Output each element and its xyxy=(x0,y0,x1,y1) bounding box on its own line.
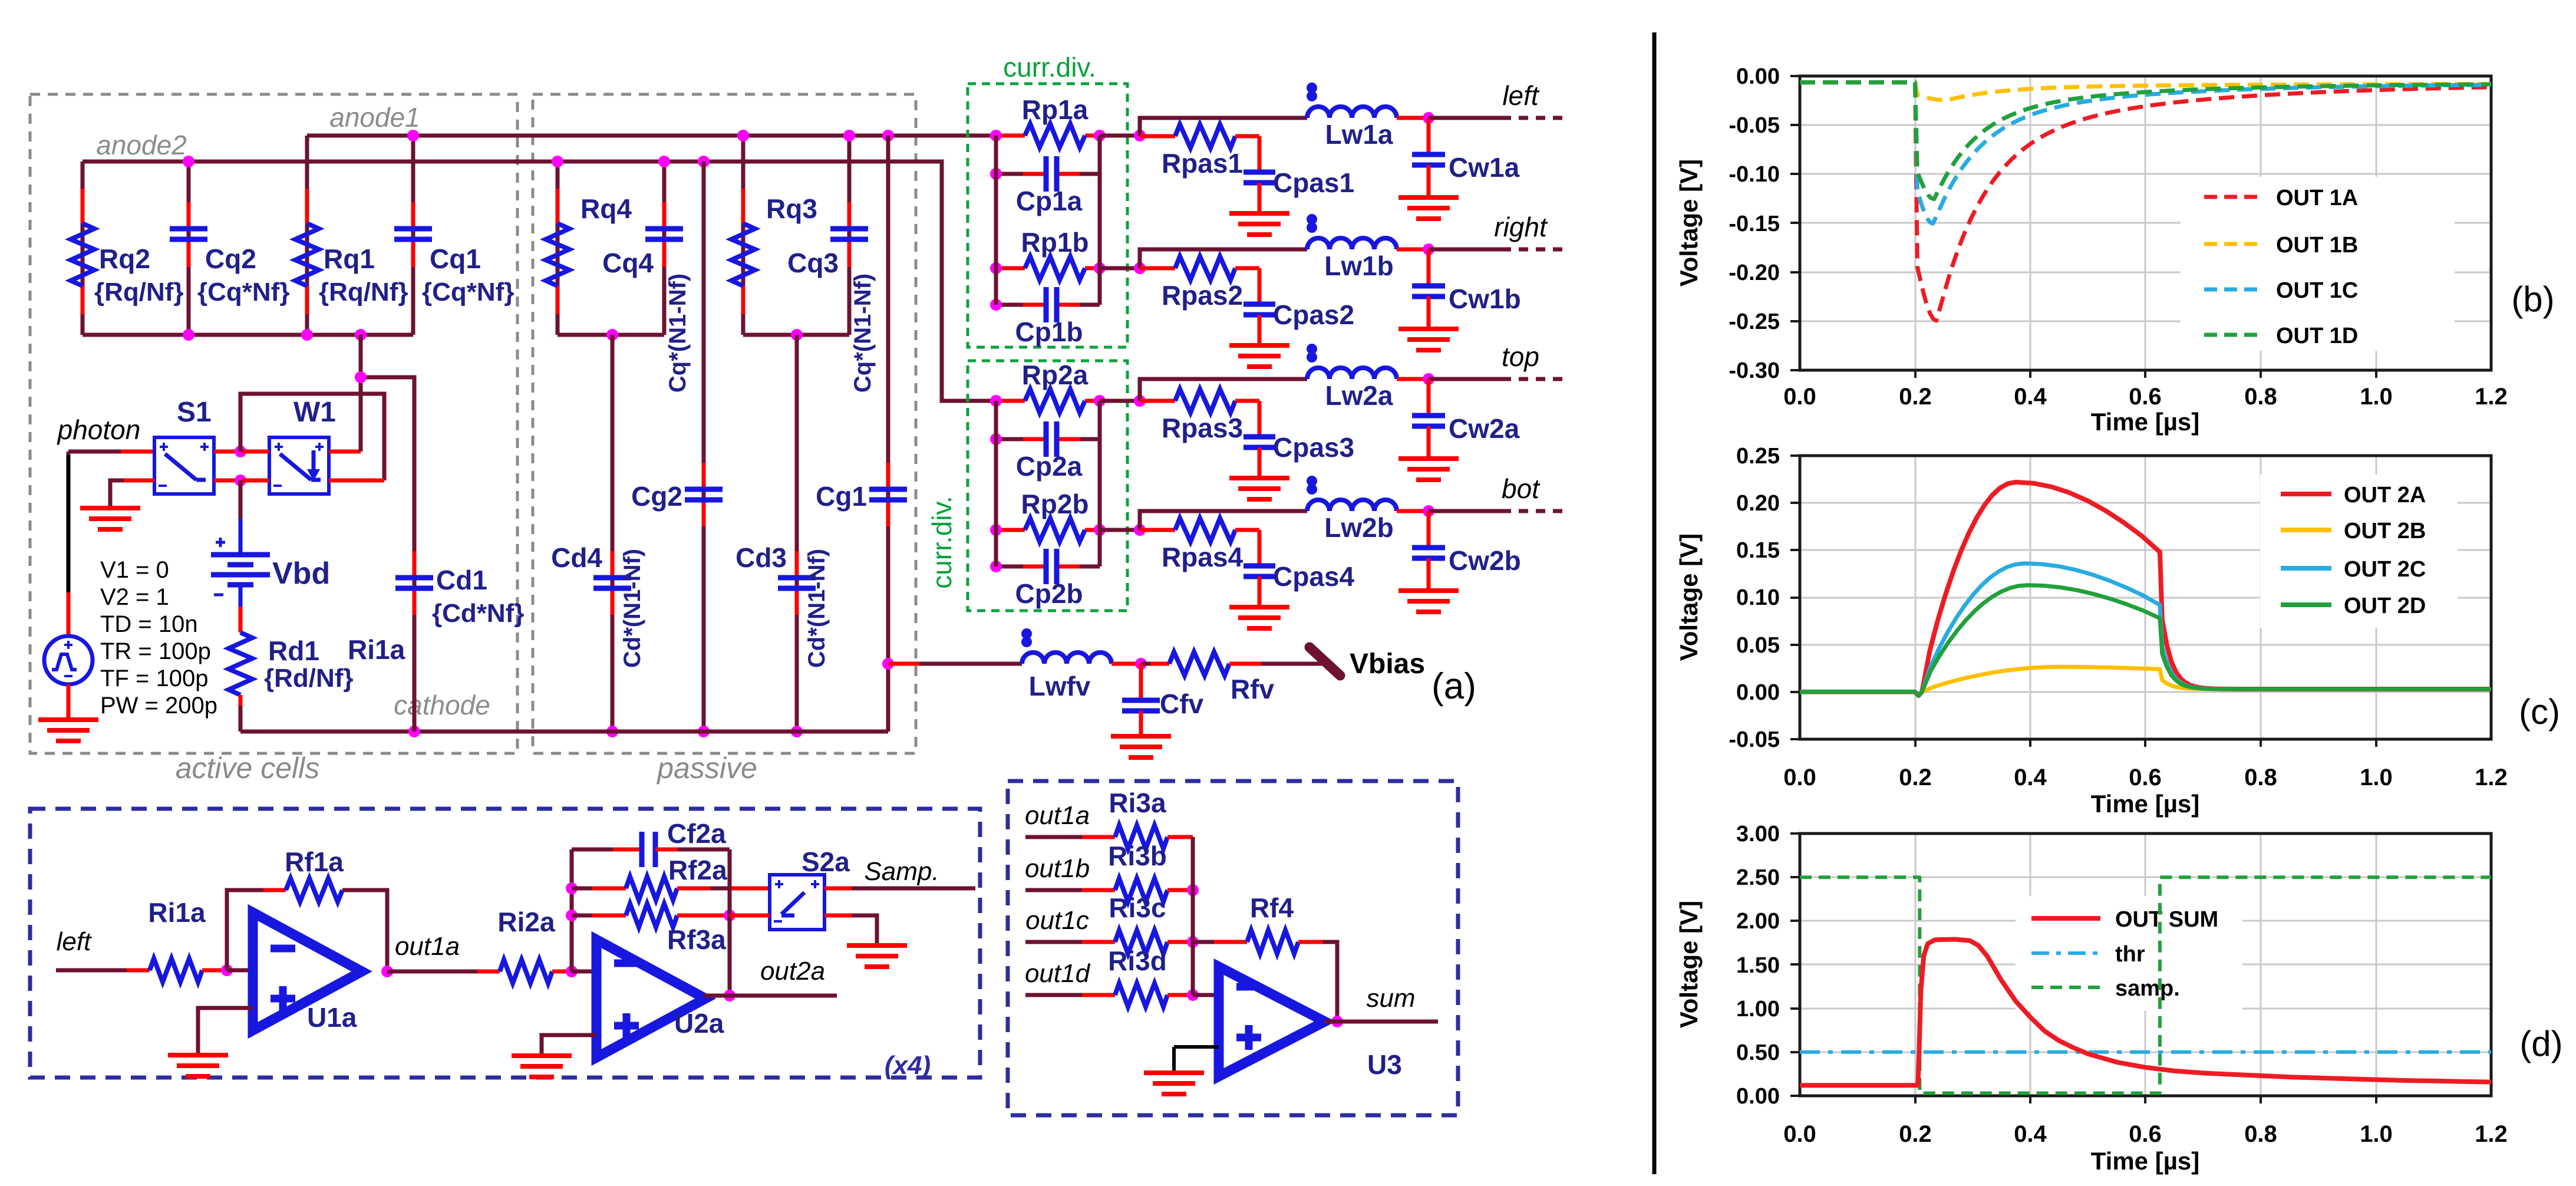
svg-text:Cw1b: Cw1b xyxy=(1449,284,1521,314)
svg-text:3.00: 3.00 xyxy=(1736,822,1780,846)
svg-text:-0.05: -0.05 xyxy=(1729,113,1780,138)
svg-text:Cw2a: Cw2a xyxy=(1449,413,1520,444)
svg-text:0.2: 0.2 xyxy=(1899,1121,1932,1147)
svg-text:0.10: 0.10 xyxy=(1736,585,1780,610)
svg-text:1.50: 1.50 xyxy=(1736,953,1780,978)
svg-text:Ri3b: Ri3b xyxy=(1108,841,1167,871)
svg-text:Rq3: Rq3 xyxy=(766,193,817,224)
svg-text:Rq1: Rq1 xyxy=(324,243,375,274)
svg-text:Cq*(N1-Nf): Cq*(N1-Nf) xyxy=(850,274,876,393)
svg-text:0.2: 0.2 xyxy=(1899,765,1932,790)
svg-text:out1b: out1b xyxy=(1025,854,1090,883)
svg-text:(b): (b) xyxy=(2511,279,2554,319)
svg-text:Cp1a: Cp1a xyxy=(1016,186,1083,216)
svg-text:Rp2b: Rp2b xyxy=(1021,489,1089,519)
svg-text:0.2: 0.2 xyxy=(1899,384,1932,410)
svg-text:Lw1b: Lw1b xyxy=(1324,251,1394,281)
svg-text:W1: W1 xyxy=(293,397,336,428)
svg-text:Cd*(N1-Nf): Cd*(N1-Nf) xyxy=(804,549,830,668)
svg-text:-0.25: -0.25 xyxy=(1729,309,1780,334)
svg-text:Cg1: Cg1 xyxy=(816,481,867,512)
svg-text:Cd*(N1-Nf): Cd*(N1-Nf) xyxy=(619,549,645,668)
svg-text:Cw1a: Cw1a xyxy=(1449,152,1520,183)
svg-text:curr.div.: curr.div. xyxy=(926,496,957,589)
svg-text:photon: photon xyxy=(57,414,141,445)
svg-text:out1a: out1a xyxy=(395,932,460,961)
svg-text:Cd3: Cd3 xyxy=(735,542,787,573)
svg-text:2.50: 2.50 xyxy=(1736,865,1780,890)
svg-text:Time [µs]: Time [µs] xyxy=(2091,408,2199,436)
svg-text:Time [µs]: Time [µs] xyxy=(2091,790,2199,818)
svg-text:Rd1: Rd1 xyxy=(268,635,319,666)
svg-text:0.8: 0.8 xyxy=(2244,765,2277,790)
svg-text:0.0: 0.0 xyxy=(1783,765,1816,790)
svg-text:Rpas2: Rpas2 xyxy=(1162,280,1243,311)
svg-text:-0.15: -0.15 xyxy=(1729,212,1780,236)
svg-text:1.2: 1.2 xyxy=(2475,384,2508,410)
svg-text:Cpas1: Cpas1 xyxy=(1273,167,1354,198)
svg-text:S1: S1 xyxy=(177,397,212,428)
svg-text:Ri1a: Ri1a xyxy=(148,897,206,928)
svg-text:Lwfv: Lwfv xyxy=(1029,671,1091,701)
svg-text:{Cq*Nf}: {Cq*Nf} xyxy=(422,278,514,307)
svg-text:Voltage [V]: Voltage [V] xyxy=(1675,159,1703,286)
svg-text:1.0: 1.0 xyxy=(2360,1121,2393,1147)
svg-text:Cd4: Cd4 xyxy=(551,542,602,573)
svg-text:Lw1a: Lw1a xyxy=(1325,119,1393,150)
svg-text:Cf2a: Cf2a xyxy=(667,818,726,849)
svg-text:cathode: cathode xyxy=(394,690,490,720)
svg-text:Rfv: Rfv xyxy=(1231,674,1275,704)
svg-text:bot: bot xyxy=(1502,473,1541,504)
svg-text:{Cq*Nf}: {Cq*Nf} xyxy=(197,278,289,307)
svg-text:Rq4: Rq4 xyxy=(580,193,632,224)
svg-text:0.8: 0.8 xyxy=(2244,1121,2277,1147)
svg-text:Samp.: Samp. xyxy=(864,857,939,886)
svg-text:0.20: 0.20 xyxy=(1736,491,1780,516)
svg-text:OUT 1D: OUT 1D xyxy=(2276,324,2358,348)
svg-text:Cd1: Cd1 xyxy=(436,565,487,595)
svg-text:top: top xyxy=(1502,341,1539,372)
svg-text:Rq2: Rq2 xyxy=(99,243,150,274)
svg-text:out2a: out2a xyxy=(760,957,825,986)
svg-text:curr.div.: curr.div. xyxy=(1003,52,1096,83)
svg-text:Cp2a: Cp2a xyxy=(1016,451,1083,482)
svg-text:anode2: anode2 xyxy=(96,130,187,160)
svg-text:passive: passive xyxy=(656,752,757,785)
svg-text:Rp1a: Rp1a xyxy=(1022,94,1089,125)
svg-text:samp.: samp. xyxy=(2115,976,2180,1001)
svg-text:0.00: 0.00 xyxy=(1736,680,1780,705)
svg-text:Cq1: Cq1 xyxy=(430,243,481,274)
svg-text:0.8: 0.8 xyxy=(2244,384,2277,410)
svg-text:right: right xyxy=(1494,212,1548,242)
svg-text:0.15: 0.15 xyxy=(1736,538,1780,563)
svg-text:OUT SUM: OUT SUM xyxy=(2115,907,2218,932)
svg-text:OUT 2B: OUT 2B xyxy=(2344,519,2426,543)
svg-text:0.6: 0.6 xyxy=(2129,765,2162,790)
svg-text:0.25: 0.25 xyxy=(1736,444,1780,469)
svg-text:1.2: 1.2 xyxy=(2475,765,2508,790)
svg-text:Vbd: Vbd xyxy=(272,556,330,591)
svg-text:Vbias: Vbias xyxy=(1350,648,1425,680)
svg-text:OUT 2A: OUT 2A xyxy=(2344,483,2426,508)
svg-text:Ri3d: Ri3d xyxy=(1108,945,1167,976)
svg-text:0.4: 0.4 xyxy=(2014,1121,2047,1147)
svg-text:out1a: out1a xyxy=(1025,801,1090,830)
svg-text:Cq4: Cq4 xyxy=(602,248,654,278)
svg-text:Ri3a: Ri3a xyxy=(1109,788,1166,818)
svg-text:0.05: 0.05 xyxy=(1736,633,1780,658)
svg-text:out1c: out1c xyxy=(1025,906,1089,935)
svg-text:0.00: 0.00 xyxy=(1736,1084,1780,1109)
svg-text:Rp2a: Rp2a xyxy=(1022,360,1089,390)
svg-text:-0.05: -0.05 xyxy=(1729,727,1780,752)
svg-text:thr: thr xyxy=(2115,942,2145,967)
svg-text:Rp1b: Rp1b xyxy=(1021,227,1089,258)
svg-text:out1d: out1d xyxy=(1025,959,1091,988)
svg-text:{Rd/Nf}: {Rd/Nf} xyxy=(264,664,354,693)
svg-text:Cp2b: Cp2b xyxy=(1015,578,1083,609)
svg-text:{Rq/Nf}: {Rq/Nf} xyxy=(319,278,408,307)
svg-text:left: left xyxy=(1502,80,1540,111)
svg-text:sum: sum xyxy=(1366,984,1415,1013)
svg-text:-0.30: -0.30 xyxy=(1729,358,1780,383)
svg-text:S2a: S2a xyxy=(802,846,850,877)
svg-text:2.00: 2.00 xyxy=(1736,909,1780,934)
svg-text:(x4): (x4) xyxy=(885,1051,931,1080)
svg-text:1.0: 1.0 xyxy=(2360,384,2393,410)
svg-text:OUT 1A: OUT 1A xyxy=(2276,186,2358,210)
svg-text:V2 = 1: V2 = 1 xyxy=(100,584,169,610)
svg-text:0.50: 0.50 xyxy=(1736,1040,1780,1065)
svg-text:-0.20: -0.20 xyxy=(1729,261,1780,285)
svg-text:(c): (c) xyxy=(2519,692,2560,732)
svg-text:Lw2b: Lw2b xyxy=(1324,512,1394,543)
svg-text:Rpas4: Rpas4 xyxy=(1162,542,1243,572)
svg-text:Cp1b: Cp1b xyxy=(1015,317,1083,347)
svg-text:1.00: 1.00 xyxy=(1736,997,1780,1022)
svg-text:{Rq/Nf}: {Rq/Nf} xyxy=(94,278,184,307)
svg-text:Cfv: Cfv xyxy=(1160,688,1204,719)
svg-text:anode1: anode1 xyxy=(329,102,420,133)
svg-text:OUT 2C: OUT 2C xyxy=(2344,557,2426,582)
svg-text:Rf1a: Rf1a xyxy=(285,846,344,877)
svg-text:Cq*(N1-Nf): Cq*(N1-Nf) xyxy=(665,274,691,393)
svg-text:OUT 1B: OUT 1B xyxy=(2276,233,2358,258)
svg-text:Cq3: Cq3 xyxy=(787,248,839,278)
svg-text:V1 = 0: V1 = 0 xyxy=(100,557,169,583)
svg-text:Cpas2: Cpas2 xyxy=(1273,299,1354,330)
svg-text:(a): (a) xyxy=(1432,666,1476,707)
svg-text:0.6: 0.6 xyxy=(2129,384,2162,410)
svg-text:Voltage [V]: Voltage [V] xyxy=(1675,533,1703,661)
svg-text:Cg2: Cg2 xyxy=(631,481,682,512)
svg-text:1.0: 1.0 xyxy=(2360,765,2393,790)
svg-text:Rf3a: Rf3a xyxy=(667,924,726,955)
svg-text:Rf2a: Rf2a xyxy=(668,855,727,885)
svg-text:Cpas4: Cpas4 xyxy=(1273,561,1354,592)
svg-text:Ri1a: Ri1a xyxy=(348,634,405,665)
svg-text:OUT 2D: OUT 2D xyxy=(2344,594,2426,618)
svg-text:U2a: U2a xyxy=(674,1008,724,1039)
svg-text:Rf4: Rf4 xyxy=(1250,892,1294,923)
svg-text:-0.10: -0.10 xyxy=(1729,162,1780,187)
svg-text:U1a: U1a xyxy=(307,1002,357,1033)
svg-text:Time [µs]: Time [µs] xyxy=(2091,1147,2199,1175)
svg-text:Voltage [V]: Voltage [V] xyxy=(1675,901,1703,1028)
svg-text:Rpas3: Rpas3 xyxy=(1162,413,1243,443)
svg-text:Cq2: Cq2 xyxy=(205,243,256,274)
svg-text:TR = 100p: TR = 100p xyxy=(100,638,211,664)
svg-text:TF = 100p: TF = 100p xyxy=(100,666,208,691)
svg-text:1.2: 1.2 xyxy=(2475,1121,2508,1147)
svg-text:Lw2a: Lw2a xyxy=(1325,380,1393,411)
svg-text:Cpas3: Cpas3 xyxy=(1273,432,1354,463)
svg-text:TD = 10n: TD = 10n xyxy=(100,611,198,637)
svg-text:active cells: active cells xyxy=(176,752,320,785)
svg-text:0.4: 0.4 xyxy=(2014,765,2047,790)
svg-text:Rpas1: Rpas1 xyxy=(1162,148,1243,179)
svg-text:{Cd*Nf}: {Cd*Nf} xyxy=(432,599,524,628)
svg-text:PW = 200p: PW = 200p xyxy=(100,693,217,719)
svg-text:(d): (d) xyxy=(2519,1024,2562,1063)
svg-text:Ri2a: Ri2a xyxy=(497,907,555,937)
svg-text:left: left xyxy=(57,927,92,956)
svg-text:Cw2b: Cw2b xyxy=(1449,545,1521,576)
svg-text:0.0: 0.0 xyxy=(1783,1121,1816,1147)
svg-text:U3: U3 xyxy=(1367,1049,1402,1080)
svg-text:0.4: 0.4 xyxy=(2014,384,2047,410)
svg-text:0.0: 0.0 xyxy=(1783,384,1816,410)
svg-text:OUT 1C: OUT 1C xyxy=(2276,278,2358,303)
svg-text:Ri3c: Ri3c xyxy=(1109,892,1166,923)
svg-text:0.6: 0.6 xyxy=(2129,1121,2162,1147)
svg-text:0.00: 0.00 xyxy=(1736,64,1780,89)
